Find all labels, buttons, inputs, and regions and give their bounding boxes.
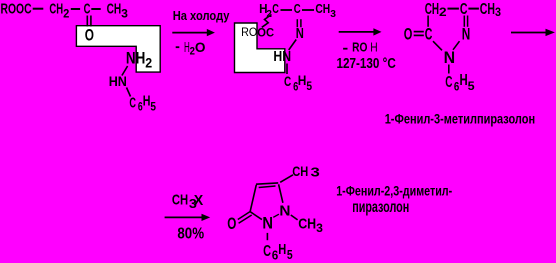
svg-text:пиразолон: пиразолон — [352, 199, 409, 216]
svg-text:H: H — [143, 93, 151, 109]
bond vertex to N right (product) — [279, 184, 283, 203]
svg-text:C: C — [425, 25, 433, 44]
svg-text:3: 3 — [311, 166, 320, 180]
ring bond C(=O) to top-left vertex (product) — [250, 185, 256, 212]
svg-text:На холоду: На холоду — [173, 9, 230, 23]
bond dash H2C-C — [281, 9, 293, 11]
arrow 2 head — [373, 28, 381, 35]
svg-text:H: H — [460, 72, 468, 89]
C=O double bond (structure 3) — [414, 31, 424, 33]
bond N-N (hydrazine) — [122, 66, 128, 76]
svg-text:C: C — [284, 73, 291, 89]
svg-text:NH: NH — [126, 48, 145, 67]
svg-text:C: C — [272, 1, 279, 16]
bond dash C-CH3 (structure 3) — [468, 8, 479, 10]
svg-text:O: O — [227, 214, 236, 233]
svg-text:2: 2 — [145, 56, 152, 71]
svg-text:CH: CH — [49, 0, 63, 17]
bond N-C6H5 (structure 3) — [448, 65, 450, 74]
svg-text:1-Фенил-2,3-диметил-: 1-Фенил-2,3-диметил- — [336, 183, 452, 198]
svg-text:3: 3 — [121, 9, 128, 21]
svg-text:N: N — [444, 48, 456, 67]
bond dash ROOC-CH2 — [33, 8, 44, 10]
ring bond C to N bottom (structure 3) — [433, 41, 442, 50]
svg-text:C: C — [84, 0, 91, 17]
svg-text:N: N — [462, 25, 471, 44]
svg-text:3: 3 — [495, 5, 501, 19]
svg-text:CH: CH — [107, 0, 122, 17]
bond N to CH3 right (product) — [291, 215, 298, 220]
svg-text:5: 5 — [150, 102, 156, 114]
svg-text:H: H — [298, 72, 307, 88]
arrow 4 line (far right) — [511, 32, 547, 34]
svg-text:3: 3 — [330, 8, 336, 20]
svg-text:C: C — [294, 1, 301, 16]
bond dash CH2-C (structure 3) — [448, 8, 459, 10]
C=O double bond (structure 1) — [86, 16, 88, 27]
svg-text:HN: HN — [109, 73, 127, 89]
svg-text:C: C — [263, 243, 271, 260]
svg-text:N: N — [262, 213, 273, 232]
svg-text:RO: RO — [352, 41, 368, 55]
svg-text:N: N — [296, 25, 304, 42]
white box (structure 1, behind O and NH2) — [76, 26, 160, 72]
bond H2C to COOR (zigzag) — [262, 15, 272, 28]
bond dash C-CH3 (structure 2) — [302, 9, 314, 11]
svg-text:N: N — [279, 203, 290, 220]
svg-text:H: H — [278, 241, 286, 258]
arrow 4 head — [546, 29, 555, 36]
svg-text:CH: CH — [292, 163, 308, 179]
bond dash C-CH3 — [91, 8, 100, 10]
svg-text:5: 5 — [306, 81, 312, 93]
svg-text:2: 2 — [439, 5, 447, 19]
svg-text:RO: RO — [241, 25, 257, 39]
C=O double bond (product, diagonal) — [238, 212, 250, 220]
bond CH2 to ring C (vertical) — [427, 16, 429, 27]
arrow 3 line — [165, 216, 203, 218]
svg-text:CH: CH — [172, 191, 188, 208]
svg-text:CH: CH — [315, 1, 330, 16]
svg-text:C: C — [445, 74, 452, 91]
svg-text:O: O — [195, 39, 206, 55]
svg-text:H: H — [370, 41, 377, 55]
caption arrow 2 line — [339, 31, 375, 33]
C=N double bond (structure 3) — [463, 16, 465, 27]
svg-text:5: 5 — [468, 79, 475, 93]
svg-text:C: C — [129, 96, 136, 112]
caption "- ROH" — [343, 48, 347, 50]
svg-text:CH: CH — [480, 1, 495, 18]
svg-text:5: 5 — [287, 247, 293, 262]
ring bond C(=O) to N bottom (product) — [250, 212, 262, 220]
bond dash CH2-C — [71, 8, 80, 10]
svg-text:127-130 °С: 127-130 °С — [337, 56, 397, 72]
arrow 3 head — [202, 214, 211, 221]
svg-text:1-Фенил-3-метилпиразолон: 1-Фенил-3-метилпиразолон — [385, 112, 535, 127]
svg-text:O: O — [404, 25, 413, 44]
white box (structure 2) — [235, 23, 285, 73]
C=N double bond (structure 2) — [296, 19, 298, 27]
svg-text:80%: 80% — [177, 226, 204, 243]
arrow 1 head — [207, 29, 215, 36]
ring C=C double bond (product top) — [256, 183, 278, 184]
bond N-N (product) — [273, 214, 279, 217]
bond N-NH (structure 2) — [289, 40, 297, 51]
bond HN-C6H5 — [127, 88, 131, 97]
bond vertex to CH3 (product top) — [280, 175, 293, 183]
svg-text:CH: CH — [298, 215, 316, 232]
svg-text:HN: HN — [273, 48, 291, 65]
svg-text:O: O — [85, 25, 94, 44]
arrow 1 line — [172, 32, 208, 34]
bond N bottom to C6H5 (product) — [266, 233, 268, 240]
caption "- H2O" — [176, 46, 180, 48]
svg-text:ROOC: ROOC — [1, 0, 32, 17]
ring bond N right to N bottom (structure 3) — [453, 41, 460, 50]
svg-text:3: 3 — [316, 221, 323, 235]
svg-text:OC: OC — [257, 26, 274, 40]
svg-text:2: 2 — [63, 9, 69, 21]
bond N-C6H5 (structure 2) — [286, 64, 288, 75]
svg-text:X: X — [194, 192, 204, 209]
svg-text:CH: CH — [425, 1, 439, 18]
